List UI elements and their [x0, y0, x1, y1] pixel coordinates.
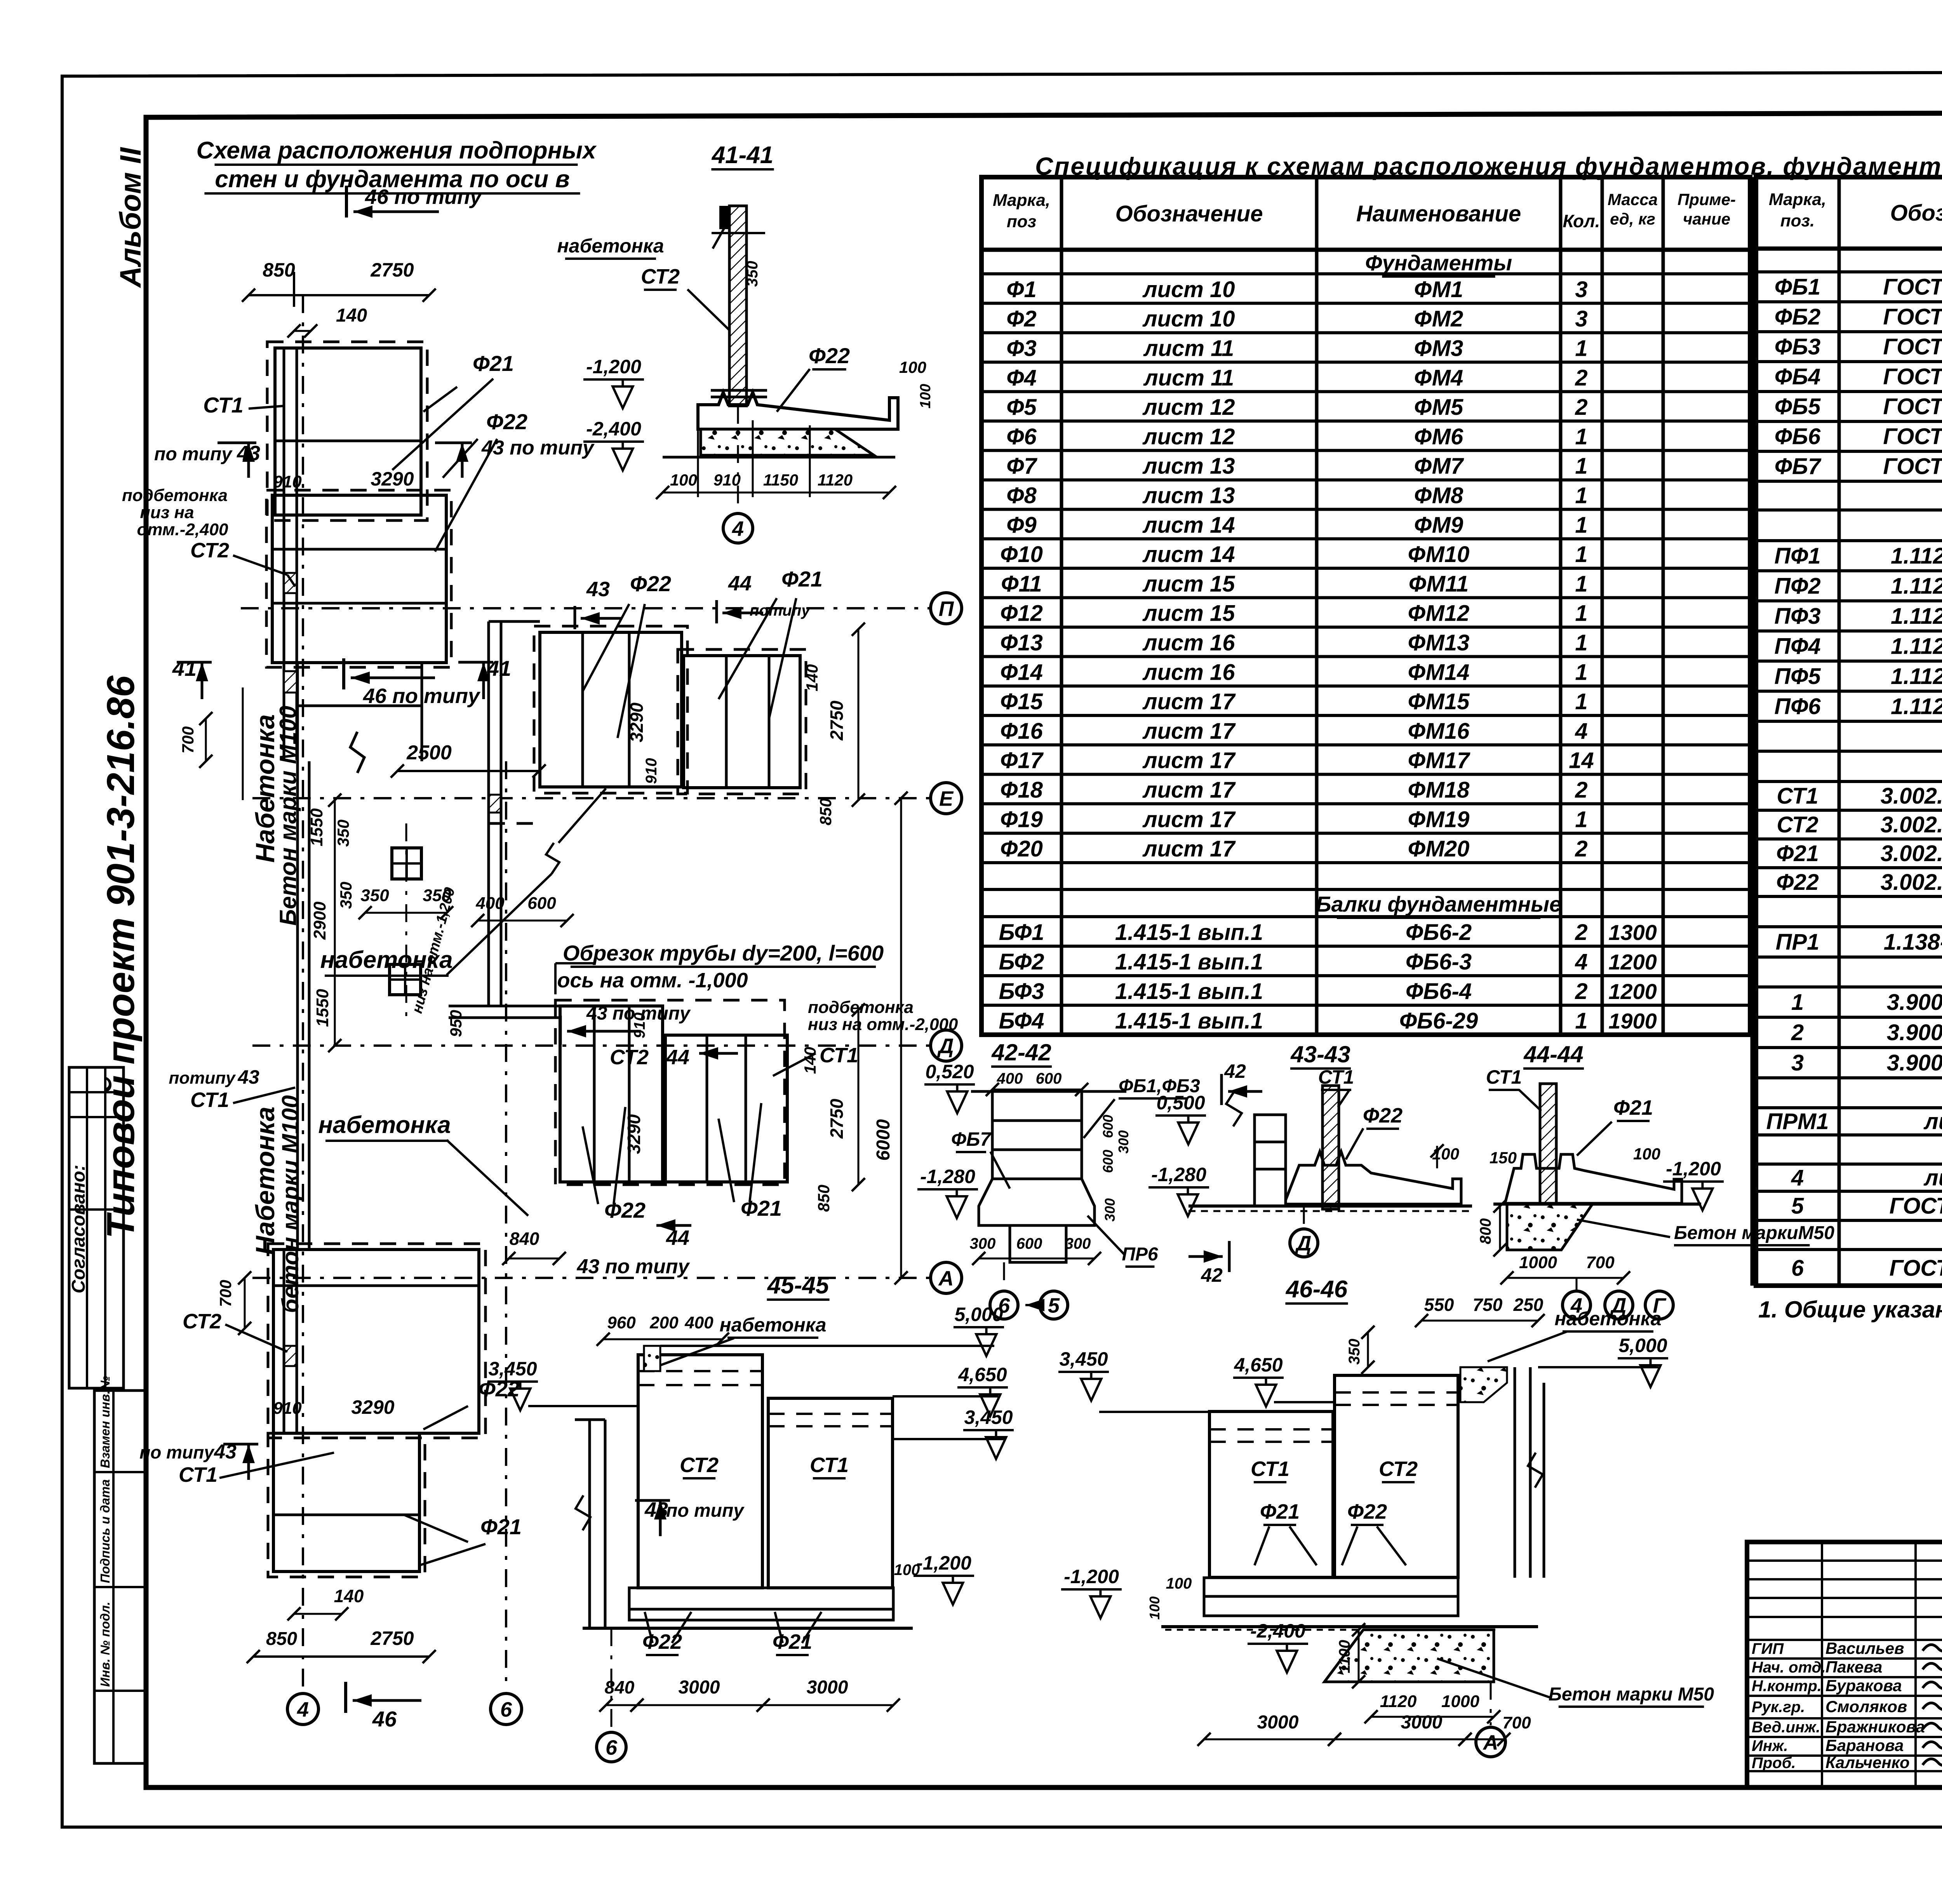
svg-text:840: 840 — [510, 1229, 539, 1249]
svg-text:2750: 2750 — [827, 1098, 847, 1139]
svg-text:по типу: по типу — [139, 1442, 215, 1462]
svg-text:ПР1: ПР1 — [1776, 929, 1820, 955]
svg-text:ФБ2: ФБ2 — [1775, 305, 1821, 330]
svg-text:СТ2: СТ2 — [1379, 1457, 1418, 1481]
svg-text:Ф21: Ф21 — [480, 1514, 522, 1539]
svg-text:1200: 1200 — [1608, 979, 1657, 1004]
svg-text:Ф9: Ф9 — [1006, 512, 1037, 538]
svg-text:100: 100 — [917, 384, 934, 408]
svg-text:лист 11: лист 11 — [1143, 336, 1234, 361]
left margin: approval box — [69, 1067, 124, 1388]
45-45 foundation slabs — [629, 1588, 893, 1609]
svg-text:бетон марки М100: бетон марки М100 — [277, 1095, 303, 1313]
43-43 left stack — [1255, 1115, 1286, 1142]
svg-text:Смоляков: Смоляков — [1825, 1697, 1907, 1716]
svg-text:43 по типу: 43 по типу — [577, 1255, 691, 1278]
svg-text:350: 350 — [337, 882, 355, 909]
svg-text:46 по типу: 46 по типу — [365, 185, 483, 209]
svg-text:3.900-3 вып. 7: 3.900-3 вып. 7 — [1887, 1020, 1942, 1045]
plan block2 at axis E — [534, 626, 687, 793]
svg-text:3290: 3290 — [626, 702, 647, 742]
svg-text:42: 42 — [1224, 1060, 1246, 1082]
svg-text:чание: чание — [1683, 210, 1730, 228]
46-46 foundation slabs — [1204, 1578, 1458, 1596]
44-44 wall CT1 — [1540, 1084, 1556, 1206]
svg-text:3000: 3000 — [1257, 1712, 1299, 1733]
svg-text:лист 12: лист 12 — [1142, 424, 1235, 449]
svg-text:ФБ1: ФБ1 — [1775, 275, 1821, 300]
svg-text:600: 600 — [527, 894, 556, 913]
svg-text:2: 2 — [1575, 979, 1587, 1004]
svg-text:Д: Д — [1295, 1232, 1312, 1255]
svg-text:ФМ8: ФМ8 — [1414, 483, 1463, 508]
svg-text:41-41: 41-41 — [711, 142, 774, 169]
svg-text:3: 3 — [1791, 1050, 1804, 1076]
svg-text:1120: 1120 — [818, 471, 853, 489]
svg-text:1100: 1100 — [1336, 1640, 1353, 1673]
svg-text:набетонка: набетонка — [318, 1112, 451, 1138]
svg-text:Ф21: Ф21 — [473, 351, 514, 376]
svg-text:П: П — [939, 597, 954, 620]
svg-text:лист 17: лист 17 — [1142, 778, 1236, 803]
svg-text:лист 17: лист 17 — [1142, 807, 1236, 832]
svg-text:потипу: потипу — [169, 1069, 236, 1088]
svg-text:Ф21: Ф21 — [1260, 1500, 1300, 1523]
svg-text:1000: 1000 — [1519, 1253, 1557, 1272]
svg-text:Балки фундаментные: Балки фундаментные — [1316, 892, 1561, 916]
svg-text:46-46: 46-46 — [1285, 1276, 1348, 1303]
svg-text:1.415-1 вып.1: 1.415-1 вып.1 — [1115, 1008, 1263, 1034]
45-45 small hatched pad top — [644, 1346, 660, 1371]
svg-text:-1,200: -1,200 — [1666, 1158, 1721, 1180]
svg-text:БФ3: БФ3 — [999, 979, 1044, 1004]
svg-text:Приме-: Приме- — [1677, 190, 1736, 209]
svg-text:3,450: 3,450 — [488, 1358, 537, 1380]
svg-text:4: 4 — [1575, 719, 1587, 744]
plan: mark 46 po tipu (middle) — [342, 658, 345, 689]
right spec table grid — [1756, 177, 1942, 1286]
svg-text:ось на отм. -1,000: ось на отм. -1,000 — [557, 969, 748, 992]
svg-text:1550: 1550 — [307, 808, 326, 846]
svg-text:44: 44 — [666, 1226, 689, 1250]
svg-text:3.900-3 вып. 7: 3.900-3 вып. 7 — [1887, 1050, 1942, 1076]
svg-text:Ф21: Ф21 — [1776, 841, 1819, 866]
svg-text:лист 15: лист 15 — [1142, 571, 1236, 597]
svg-text:ФМ20: ФМ20 — [1408, 836, 1470, 861]
svg-text:лист 10: лист 10 — [1142, 306, 1235, 332]
svg-text:2750: 2750 — [370, 259, 414, 281]
svg-text:ФБ5: ФБ5 — [1775, 394, 1821, 419]
svg-text:43: 43 — [237, 1066, 259, 1088]
svg-text:Пакева: Пакева — [1825, 1658, 1882, 1676]
svg-text:300: 300 — [1065, 1235, 1091, 1252]
svg-text:850: 850 — [814, 1185, 833, 1212]
plan block4 at axis A — [268, 1244, 486, 1438]
svg-text:ГОСТ 13579-78: ГОСТ 13579-78 — [1883, 424, 1942, 449]
plan block3 at axis D — [555, 1000, 785, 1185]
svg-text:300: 300 — [1102, 1198, 1118, 1222]
svg-text:44: 44 — [728, 572, 752, 595]
svg-text:Ф12: Ф12 — [1000, 601, 1043, 626]
44-44 foundation profile — [1505, 1154, 1682, 1203]
svg-text:А: А — [1483, 1731, 1498, 1754]
svg-text:950: 950 — [447, 1010, 465, 1037]
plan axis line E — [252, 797, 929, 799]
svg-text:Ф2: Ф2 — [1006, 306, 1037, 332]
svg-text:2900: 2900 — [310, 902, 329, 940]
svg-text:БФ2: БФ2 — [999, 949, 1044, 975]
svg-text:1: 1 — [1575, 542, 1587, 567]
svg-text:СТ1: СТ1 — [179, 1463, 218, 1486]
svg-text:ФМ4: ФМ4 — [1414, 365, 1463, 390]
svg-text:2750: 2750 — [827, 700, 847, 741]
svg-text:41: 41 — [487, 656, 511, 680]
svg-text:700: 700 — [1502, 1713, 1531, 1732]
svg-text:СТ2: СТ2 — [183, 1310, 221, 1333]
svg-text:Ф18: Ф18 — [1000, 778, 1043, 803]
svg-text:43 по типу: 43 по типу — [586, 1003, 691, 1024]
svg-text:Масса: Масса — [1608, 190, 1658, 209]
svg-text:Ф21: Ф21 — [773, 1630, 812, 1653]
svg-text:Вед.инж.: Вед.инж. — [1752, 1719, 1820, 1736]
44-44 concrete pad below — [1507, 1204, 1592, 1250]
svg-text:ФМ11: ФМ11 — [1409, 571, 1469, 597]
plan axis line D — [252, 1044, 929, 1047]
svg-text:1.415-1 вып.1: 1.415-1 вып.1 — [1115, 949, 1263, 975]
svg-text:1.112-5 вып.1: 1.112-5 вып.1 — [1891, 604, 1942, 629]
svg-text:набетонка: набетонка — [1554, 1308, 1661, 1330]
svg-text:600: 600 — [1016, 1235, 1042, 1252]
svg-text:лист 16: лист 16 — [1142, 660, 1236, 685]
svg-text:2: 2 — [1575, 836, 1587, 861]
svg-text:250: 250 — [1513, 1295, 1544, 1315]
svg-text:-2,400: -2,400 — [1250, 1620, 1305, 1642]
svg-text:Ф22: Ф22 — [809, 343, 850, 368]
svg-text:ФМ13: ФМ13 — [1408, 630, 1470, 656]
svg-text:140: 140 — [336, 305, 367, 326]
svg-text:ФМ12: ФМ12 — [1408, 601, 1470, 626]
svg-text:700: 700 — [216, 1280, 235, 1307]
svg-text:2: 2 — [1575, 920, 1587, 945]
svg-text:100: 100 — [894, 1561, 920, 1579]
svg-text:ПР6: ПР6 — [1122, 1244, 1158, 1265]
46-46 nabetonka pad — [1460, 1367, 1507, 1402]
svg-text:набетонка: набетонка — [557, 235, 664, 257]
svg-text:Марка,: Марка, — [993, 191, 1050, 210]
svg-text:1.415-1 вып.1: 1.415-1 вып.1 — [1115, 920, 1263, 945]
svg-text:Н.контр.: Н.контр. — [1752, 1678, 1822, 1695]
svg-text:ПФ1: ПФ1 — [1774, 543, 1820, 569]
svg-text:ед, кг: ед, кг — [1610, 210, 1655, 228]
svg-text:лист 16: лист 16 — [1142, 630, 1236, 656]
svg-text:Ф11: Ф11 — [1001, 571, 1042, 597]
svg-text:400: 400 — [475, 894, 505, 913]
svg-text:подбетонка: подбетонка — [122, 486, 228, 505]
plan: column squares and dim chain — [392, 848, 421, 879]
svg-text:1: 1 — [1575, 424, 1587, 449]
41-41 foundation profile F22 — [698, 392, 898, 429]
svg-text:3.002.1-1 вып.1: 3.002.1-1 вып.1 — [1881, 870, 1942, 895]
svg-text:ГОСТ 13579-78: ГОСТ 13579-78 — [1883, 364, 1942, 390]
svg-text:43 по типу: 43 по типу — [481, 437, 595, 459]
svg-text:Бетон маркиМ50: Бетон маркиМ50 — [1674, 1223, 1834, 1243]
svg-text:СТ2: СТ2 — [610, 1046, 649, 1069]
svg-text:1: 1 — [1791, 990, 1804, 1015]
svg-text:600: 600 — [1100, 1150, 1116, 1173]
svg-text:А: А — [938, 1267, 954, 1290]
svg-text:СТ1: СТ1 — [820, 1044, 858, 1067]
svg-text:-1,280: -1,280 — [1151, 1164, 1206, 1185]
svg-text:низ на отм.-2,000: низ на отм.-2,000 — [808, 1015, 958, 1034]
svg-text:Ф5: Ф5 — [1006, 395, 1037, 420]
plan: small concrete pads on wall — [284, 573, 297, 593]
svg-text:СТ1: СТ1 — [1777, 783, 1818, 809]
43-43 foundation profile — [1286, 1152, 1461, 1204]
svg-text:1550: 1550 — [313, 989, 332, 1027]
svg-text:Ф22: Ф22 — [630, 571, 671, 596]
svg-text:ГОСТ 7338-77: ГОСТ 7338-77 — [1889, 1256, 1942, 1281]
svg-text:850: 850 — [266, 1629, 297, 1649]
left spec table grid — [981, 177, 1750, 1035]
svg-text:3.002.1-1 вып.1: 3.002.1-1 вып.1 — [1881, 783, 1942, 809]
svg-text:Ф6: Ф6 — [1006, 424, 1037, 449]
svg-text:СТ1: СТ1 — [1251, 1457, 1289, 1481]
svg-text:300: 300 — [970, 1235, 996, 1252]
svg-text:6: 6 — [606, 1736, 618, 1759]
svg-text:Подпись и дата: Подпись и дата — [98, 1479, 112, 1584]
plan axis line A — [252, 1277, 929, 1279]
svg-text:1150: 1150 — [763, 471, 798, 489]
42-42 axis circles 6->5 — [990, 1291, 1018, 1319]
43-43 axis circle D — [1303, 1206, 1305, 1225]
svg-text:Проб.: Проб. — [1752, 1754, 1796, 1772]
svg-text:ПРМ1: ПРМ1 — [1766, 1109, 1829, 1134]
46-46 walls CT1 CT2 — [1209, 1411, 1333, 1577]
svg-text:Инж.: Инж. — [1752, 1737, 1788, 1754]
svg-text:Кол.: Кол. — [1563, 211, 1600, 231]
svg-text:Ф14: Ф14 — [1000, 660, 1043, 685]
svg-text:140: 140 — [803, 664, 821, 691]
svg-text:100: 100 — [1633, 1145, 1660, 1163]
svg-text:1: 1 — [1575, 454, 1587, 479]
svg-text:ПФ6: ПФ6 — [1774, 694, 1821, 719]
svg-text:потипу: потипу — [750, 602, 811, 619]
svg-text:550: 550 — [1424, 1295, 1454, 1315]
svg-text:3.002.1-1 вып.1: 3.002.1-1 вып.1 — [1881, 812, 1942, 837]
svg-text:Марка,: Марка, — [1769, 190, 1826, 209]
svg-text:лист 10: лист 10 — [1142, 277, 1235, 302]
svg-text:лист 14: лист 14 — [1142, 542, 1235, 567]
svg-text:46 по типу: 46 по типу — [363, 684, 481, 708]
svg-text:ГОСТ 13579-78: ГОСТ 13579-78 — [1883, 275, 1942, 300]
svg-text:42: 42 — [1201, 1264, 1223, 1286]
plan: top mark 46 po tipu — [345, 186, 348, 218]
svg-text:42-42: 42-42 — [991, 1039, 1051, 1065]
svg-text:350: 350 — [360, 886, 389, 905]
svg-text:СТ2: СТ2 — [641, 265, 680, 288]
svg-text:1.138-10 вып.1: 1.138-10 вып.1 — [1884, 929, 1942, 955]
svg-text:ПФ3: ПФ3 — [1774, 604, 1820, 629]
svg-text:-2,400: -2,400 — [586, 418, 641, 440]
svg-text:Ф7: Ф7 — [1006, 454, 1037, 479]
svg-text:6: 6 — [1791, 1256, 1804, 1281]
svg-text:4,650: 4,650 — [958, 1364, 1007, 1385]
svg-text:ПФ4: ПФ4 — [1774, 634, 1820, 659]
svg-text:Ф13: Ф13 — [1000, 630, 1043, 656]
svg-text:910: 910 — [273, 472, 302, 491]
svg-text:Ф8: Ф8 — [1006, 483, 1037, 508]
plan column line 6 — [505, 761, 507, 1688]
svg-text:БФ4: БФ4 — [999, 1008, 1044, 1034]
41-41 concrete pad — [701, 429, 874, 455]
svg-text:ФБ7: ФБ7 — [951, 1128, 992, 1150]
svg-text:Кальченко: Кальченко — [1825, 1753, 1910, 1772]
svg-text:1.112-5 вып.1: 1.112-5 вып.1 — [1891, 694, 1942, 719]
svg-text:14: 14 — [1569, 748, 1594, 773]
svg-text:2500: 2500 — [406, 741, 452, 764]
svg-text:4: 4 — [1575, 949, 1587, 975]
svg-text:41: 41 — [172, 656, 197, 680]
svg-text:Е: Е — [939, 787, 954, 810]
plan: 43 po tipu + podbetonka notes — [559, 1016, 562, 1045]
svg-text:Ф20: Ф20 — [1000, 836, 1043, 861]
svg-text:СТ2: СТ2 — [680, 1453, 719, 1477]
svg-text:2: 2 — [1575, 778, 1587, 803]
svg-text:43-43: 43-43 — [1290, 1041, 1350, 1067]
svg-text:СТ1: СТ1 — [190, 1088, 229, 1112]
svg-text:350: 350 — [744, 261, 761, 287]
svg-text:100: 100 — [899, 358, 926, 376]
svg-text:1: 1 — [1575, 630, 1587, 656]
svg-text:1: 1 — [1575, 512, 1587, 538]
svg-text:Нач. отд.: Нач. отд. — [1752, 1659, 1825, 1676]
svg-text:лист 13: лист 13 — [1142, 454, 1235, 479]
svg-text:3: 3 — [1575, 277, 1587, 302]
43-43 mark 42 bottom — [1189, 1255, 1223, 1258]
44-44 axis circles 4 D G — [1563, 1291, 1590, 1319]
svg-text:лист 12: лист 12 — [1142, 395, 1235, 420]
46-46 axis circle A — [1490, 1682, 1492, 1725]
svg-text:350: 350 — [334, 820, 352, 847]
svg-text:лист 15: лист 15 — [1142, 601, 1236, 626]
svg-text:Обозначение: Обозначение — [1890, 200, 1942, 226]
svg-text:910: 910 — [713, 471, 741, 489]
svg-text:Обозначение: Обозначение — [1115, 201, 1263, 226]
right table rows — [1756, 270, 1942, 273]
46-46 concrete wedge — [1324, 1630, 1494, 1682]
svg-text:1.112-5 вып.1: 1.112-5 вып.1 — [1891, 573, 1942, 599]
svg-text:лист 17: лист 17 — [1142, 719, 1236, 744]
svg-text:ФБ7: ФБ7 — [1775, 454, 1822, 479]
left table rows — [981, 272, 1750, 275]
svg-text:5,000: 5,000 — [954, 1304, 1003, 1325]
svg-text:4: 4 — [732, 517, 744, 540]
svg-text:лист 8: лист 8 — [1923, 1109, 1942, 1134]
svg-text:800: 800 — [1477, 1218, 1494, 1244]
svg-text:ФМ17: ФМ17 — [1408, 748, 1471, 773]
svg-text:-1,200: -1,200 — [586, 356, 641, 378]
svg-text:лист 17: лист 17 — [1142, 748, 1236, 773]
svg-text:3290: 3290 — [351, 1396, 394, 1418]
plan column line 4 — [302, 295, 304, 1688]
svg-text:600: 600 — [1100, 1115, 1116, 1138]
svg-text:3: 3 — [1575, 306, 1587, 332]
svg-text:140: 140 — [334, 1586, 364, 1606]
svg-text:1: 1 — [1575, 807, 1587, 832]
svg-text:1300: 1300 — [1608, 920, 1657, 945]
svg-text:1: 1 — [1575, 571, 1587, 597]
41-41 wall joint lines — [711, 389, 767, 392]
svg-text:400: 400 — [997, 1070, 1023, 1087]
svg-text:300: 300 — [1115, 1130, 1131, 1154]
plan: wall strip down the sheet — [296, 761, 299, 1250]
svg-text:Бражникова: Бражникова — [1825, 1718, 1925, 1736]
43-43 mark 42 top — [1220, 1074, 1223, 1105]
svg-text:ФМ5: ФМ5 — [1414, 395, 1463, 420]
svg-text:600: 600 — [1036, 1070, 1062, 1087]
svg-text:ФБ4: ФБ4 — [1775, 364, 1821, 390]
svg-text:ФБ6: ФБ6 — [1775, 424, 1821, 449]
svg-text:100: 100 — [1432, 1145, 1459, 1163]
svg-text:поз.: поз. — [1780, 211, 1815, 230]
svg-text:Обрезок трубы dу=200, l=600: Обрезок трубы dу=200, l=600 — [563, 941, 884, 965]
svg-text:ФМ10: ФМ10 — [1408, 542, 1470, 567]
svg-text:1.112-5 вып.1: 1.112-5 вып.1 — [1891, 634, 1942, 659]
svg-text:ГОСТ 13579-78: ГОСТ 13579-78 — [1883, 305, 1942, 330]
svg-text:200: 200 — [649, 1313, 679, 1332]
svg-text:Д: Д — [937, 1034, 954, 1058]
svg-text:3.002.1-1 вып.1: 3.002.1-1 вып.1 — [1881, 841, 1942, 866]
svg-text:ФМ3: ФМ3 — [1414, 336, 1463, 361]
svg-text:3000: 3000 — [1401, 1712, 1443, 1733]
43-43 wall CT1 — [1323, 1086, 1339, 1209]
svg-text:3290: 3290 — [624, 1114, 644, 1154]
svg-text:3000: 3000 — [679, 1677, 720, 1698]
svg-text:Ф17: Ф17 — [1000, 748, 1044, 773]
svg-text:ГОСТ 13579-78: ГОСТ 13579-78 — [1883, 454, 1942, 479]
svg-text:43: 43 — [586, 578, 610, 601]
svg-text:1000: 1000 — [1441, 1692, 1479, 1711]
41-41 axis circle 4 — [737, 405, 739, 513]
svg-text:45-45: 45-45 — [767, 1272, 830, 1299]
svg-text:ФМ1: ФМ1 — [1414, 277, 1463, 302]
svg-text:4: 4 — [297, 1698, 309, 1721]
svg-text:ПФ2: ПФ2 — [1774, 573, 1820, 599]
svg-text:лист 17: лист 17 — [1142, 836, 1236, 861]
45-45 left wall element — [588, 1420, 591, 1628]
svg-text:400: 400 — [684, 1313, 713, 1332]
plan axis line P — [241, 607, 929, 609]
svg-text:4: 4 — [1791, 1165, 1804, 1190]
svg-text:1.112-5 вып.1: 1.112-5 вып.1 — [1891, 664, 1942, 689]
svg-text:СТ2: СТ2 — [1777, 812, 1818, 837]
svg-text:БФ1: БФ1 — [999, 920, 1044, 945]
svg-text:ФМ9: ФМ9 — [1414, 512, 1463, 538]
svg-text:по типу: по типу — [666, 1500, 745, 1521]
svg-text:Буракова: Буракова — [1825, 1676, 1902, 1695]
svg-text:Взамен инв.№: Взамен инв.№ — [98, 1376, 112, 1468]
svg-text:850: 850 — [263, 259, 295, 281]
svg-text:700: 700 — [179, 726, 197, 754]
svg-text:Ф22: Ф22 — [1776, 870, 1819, 895]
svg-text:ФБ6-3: ФБ6-3 — [1406, 949, 1472, 975]
svg-text:лист 11: лист 11 — [1143, 365, 1234, 390]
svg-text:ФМ7: ФМ7 — [1414, 454, 1464, 479]
svg-text:Ф22: Ф22 — [1363, 1104, 1403, 1127]
svg-text:44: 44 — [666, 1046, 689, 1069]
svg-text:5: 5 — [1791, 1194, 1804, 1219]
svg-text:СТ1: СТ1 — [1486, 1066, 1522, 1088]
